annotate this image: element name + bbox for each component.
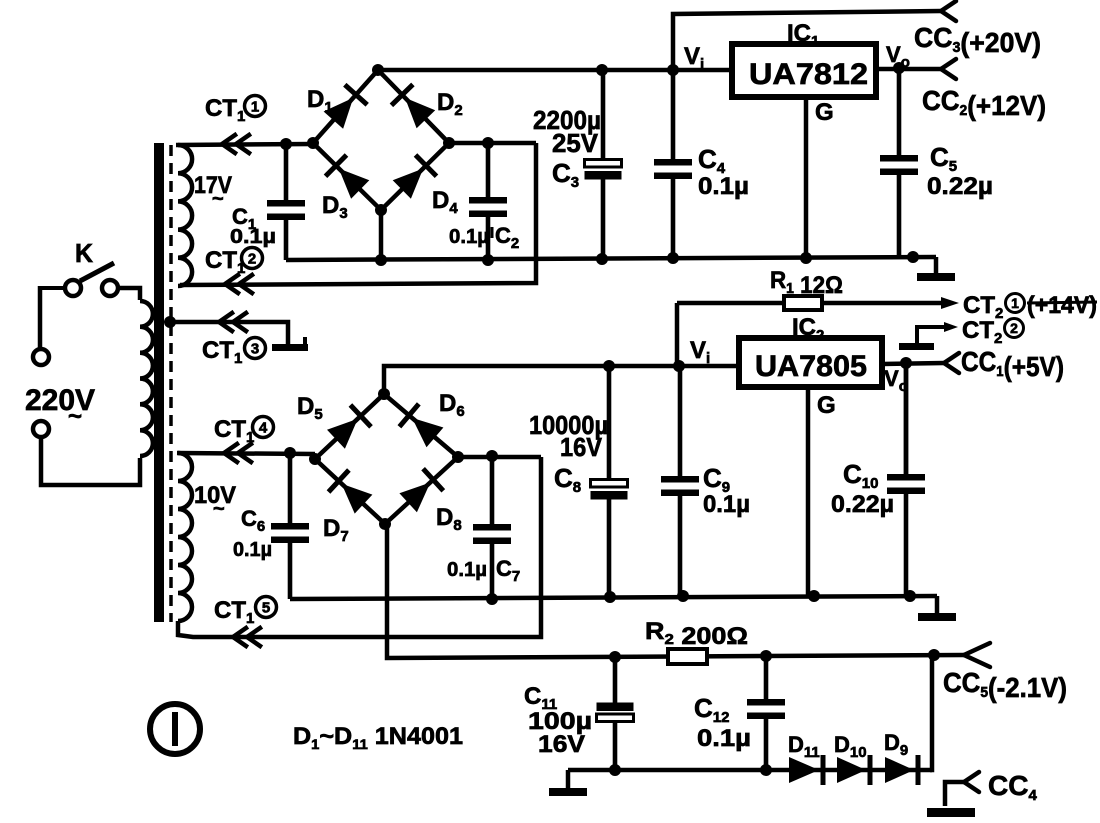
label C3 bbox=[552, 158, 579, 191]
wire bridge1 bottom vertex drop bbox=[379, 210, 384, 260]
ground symbol 4 bbox=[927, 782, 975, 817]
terminal 220V top bbox=[33, 349, 49, 365]
label D3 bbox=[322, 192, 348, 222]
IC U2 UA7805 box bbox=[739, 338, 882, 387]
svg-text:CC1(+5V): CC1(+5V) bbox=[961, 346, 1064, 382]
node CT1-3 tap junction bbox=[164, 316, 176, 328]
label C5 value bbox=[927, 173, 993, 200]
terminal CC1 bbox=[944, 353, 959, 373]
terminal CC5 bbox=[964, 643, 990, 667]
label D5 bbox=[297, 393, 323, 423]
label CT2-2 bbox=[962, 317, 1024, 347]
ground symbol 1 bbox=[917, 257, 955, 281]
label C6 value bbox=[233, 539, 272, 561]
label 10V bbox=[194, 482, 236, 520]
terminal CC2 bbox=[941, 59, 956, 79]
wire diode chain to CC5 node bbox=[930, 655, 932, 770]
transformer T1 core bbox=[154, 143, 171, 622]
svg-text:G: G bbox=[815, 99, 834, 126]
diode D7 bbox=[329, 470, 373, 514]
label CC2 bbox=[922, 85, 1046, 121]
label CT1-1 bbox=[205, 95, 266, 125]
wire mains left bbox=[38, 286, 43, 349]
terminal bar CT1-3 bbox=[272, 337, 308, 351]
svg-text:UA7805: UA7805 bbox=[755, 350, 867, 383]
pin G IC1 bbox=[815, 99, 834, 126]
node C6 top junction bbox=[284, 447, 296, 459]
wire bridge1 bottom rail bbox=[286, 254, 936, 266]
wire IC1 output bbox=[876, 62, 941, 74]
switch K bbox=[40, 263, 118, 296]
label C10 bbox=[843, 459, 878, 492]
svg-text:0.1µ: 0.1µ bbox=[447, 559, 487, 581]
label C10 value bbox=[831, 491, 894, 518]
label CC1 bbox=[961, 346, 1064, 382]
svg-text:(+14V): (+14V) bbox=[1027, 292, 1097, 319]
label C12 value bbox=[697, 725, 751, 752]
label C5 bbox=[930, 142, 957, 175]
ground rail 1 junctions bbox=[596, 251, 919, 265]
svg-text:1: 1 bbox=[1011, 295, 1019, 311]
label D4 bbox=[432, 187, 458, 217]
capacitor C2 bbox=[469, 143, 507, 260]
svg-text:0.1µ: 0.1µ bbox=[698, 173, 749, 200]
svg-text:0.22µ: 0.22µ bbox=[831, 491, 894, 518]
label C2 value bbox=[449, 223, 519, 252]
label C11 value 100u bbox=[528, 708, 592, 735]
transformer T1 secondary winding 17V bbox=[178, 145, 192, 286]
label C11 value 16V bbox=[538, 731, 585, 758]
wire mains bottom bbox=[41, 437, 140, 485]
svg-text:1: 1 bbox=[251, 98, 259, 115]
IC U1 UA7812 box bbox=[732, 44, 876, 97]
wire CT1-4 tap bbox=[177, 444, 315, 462]
label C9 value bbox=[703, 491, 750, 518]
label D11 bbox=[788, 732, 820, 761]
pin G IC2 bbox=[817, 392, 836, 419]
svg-text:0.1µ: 0.1µ bbox=[697, 725, 751, 752]
resistor R1 bbox=[677, 296, 959, 310]
diode D1 bbox=[324, 85, 368, 129]
IC U1 UA7812 text bbox=[749, 58, 868, 91]
svg-text:~: ~ bbox=[212, 188, 224, 210]
label D6 bbox=[439, 390, 465, 420]
wire switch to primary bbox=[118, 288, 140, 300]
resistor R2 bbox=[668, 649, 707, 664]
wire CT2-2 bbox=[917, 322, 958, 343]
label CT1-2 bbox=[205, 247, 263, 277]
label R1 bbox=[770, 267, 843, 299]
diode D8 bbox=[399, 469, 443, 513]
wire CC3 branch bbox=[673, 11, 941, 70]
label CT1-4 bbox=[214, 416, 274, 446]
capacitor C10 bbox=[887, 363, 925, 596]
svg-text:0.1µ: 0.1µ bbox=[233, 539, 272, 561]
svg-text:CC2(+12V): CC2(+12V) bbox=[922, 85, 1046, 121]
svg-text:2: 2 bbox=[1010, 320, 1018, 336]
label 220V bbox=[25, 384, 95, 430]
svg-text:CC5(-2.1V): CC5(-2.1V) bbox=[943, 667, 1067, 703]
label CC4 bbox=[988, 770, 1037, 804]
svg-text:2: 2 bbox=[248, 250, 256, 267]
label IC2 bbox=[792, 314, 824, 344]
label C4 bbox=[698, 144, 726, 177]
svg-text:CC3(+20V): CC3(+20V) bbox=[914, 22, 1041, 58]
svg-text:~: ~ bbox=[213, 498, 225, 520]
label C1 value bbox=[230, 226, 276, 248]
capacitor C12 bbox=[747, 656, 785, 770]
svg-text:~: ~ bbox=[68, 403, 82, 430]
svg-text:G: G bbox=[817, 392, 836, 419]
wire bridge1 right vertex to C2 bbox=[449, 141, 536, 146]
diode D4 bbox=[393, 155, 437, 199]
label C3 value 2200u bbox=[533, 105, 601, 135]
wire CT1-2 return bbox=[180, 143, 536, 293]
label C8 value 10000u bbox=[529, 410, 608, 440]
wire IC1 ground pin bbox=[804, 97, 809, 257]
capacitor C3 bbox=[585, 70, 622, 259]
label D7 bbox=[323, 515, 349, 545]
svg-text:5: 5 bbox=[262, 599, 270, 616]
label D1 bbox=[307, 86, 333, 116]
bottom rail wire bbox=[568, 764, 932, 776]
capacitor C8 bbox=[591, 366, 628, 597]
wire CT1-1 tap bbox=[176, 135, 313, 153]
pin Vi IC1 bbox=[684, 43, 704, 73]
diode D11 bbox=[789, 755, 823, 785]
IC U2 UA7805 text bbox=[755, 350, 867, 383]
svg-text:UA7812: UA7812 bbox=[749, 58, 868, 91]
capacitor C6 bbox=[271, 453, 309, 599]
label C6 bbox=[241, 506, 265, 535]
svg-text:0.1µ: 0.1µ bbox=[449, 226, 489, 248]
svg-text:D1~D11 1N4001: D1~D11 1N4001 bbox=[293, 723, 463, 752]
wire bridge2 negative output bbox=[387, 524, 964, 663]
svg-text:0.1µ: 0.1µ bbox=[230, 226, 276, 248]
label CC3 bbox=[914, 22, 1041, 58]
capacitor C9 bbox=[661, 366, 699, 596]
wire CT1-3 tap bbox=[170, 313, 288, 344]
terminal 220V bottom bbox=[33, 421, 49, 437]
figure number 1 bbox=[150, 704, 200, 754]
label CT2-1 bbox=[963, 292, 1097, 322]
label C9 bbox=[703, 463, 730, 496]
wire bridge1 positive output bbox=[378, 64, 732, 76]
ground rail 2 bbox=[290, 590, 937, 605]
capacitor C4 bbox=[654, 70, 692, 257]
diode D2 bbox=[391, 84, 435, 128]
label D9 bbox=[884, 730, 908, 759]
svg-text:3: 3 bbox=[251, 340, 259, 357]
label IC1 bbox=[787, 20, 819, 50]
terminal bar CT2-2 bbox=[899, 343, 934, 350]
label C1 bbox=[232, 204, 256, 233]
terminal CC4 bbox=[964, 772, 979, 792]
wire Vo2 branch bbox=[904, 363, 909, 475]
ground symbol 2 bbox=[918, 596, 956, 621]
node C1 top junction bbox=[280, 138, 292, 150]
label C4 value bbox=[698, 173, 749, 200]
wire IC2 output bbox=[882, 357, 944, 369]
label C11 bbox=[524, 683, 557, 713]
svg-text:4: 4 bbox=[259, 419, 268, 436]
wire bridge2 right vertex to C7 bbox=[458, 455, 541, 460]
label CT1-5 bbox=[214, 597, 277, 628]
label 17V bbox=[194, 172, 232, 210]
capacitor C11 bbox=[597, 657, 634, 770]
transformer T1 secondary winding 10V bbox=[178, 453, 192, 621]
switch K label bbox=[75, 238, 93, 268]
diode D10 bbox=[837, 755, 870, 785]
node C7 top junction bbox=[486, 450, 498, 462]
wire bridge1 frame bbox=[307, 64, 455, 216]
label C7 value bbox=[447, 556, 520, 585]
capacitor C5 bbox=[880, 68, 918, 257]
label diodes type bbox=[293, 723, 463, 752]
wire CT1-5 return bbox=[178, 457, 541, 646]
diode D3 bbox=[326, 155, 370, 199]
svg-text:220V: 220V bbox=[25, 384, 95, 417]
wire bridge2 positive output bbox=[384, 360, 739, 394]
label C8 value 16V bbox=[560, 432, 603, 462]
capacitor C7 bbox=[473, 456, 511, 599]
svg-text:0.22µ: 0.22µ bbox=[927, 173, 993, 200]
label CC5 bbox=[943, 667, 1067, 703]
label D2 bbox=[437, 89, 463, 119]
label C3 value 25V bbox=[552, 128, 599, 158]
diode D5 bbox=[327, 405, 371, 449]
node C2 top junction bbox=[482, 137, 494, 149]
label D8 bbox=[436, 504, 462, 534]
transformer T1 primary winding bbox=[140, 301, 153, 456]
pin Vo IC1 bbox=[886, 42, 910, 71]
wire bridge2 frame bbox=[309, 388, 464, 530]
capacitor C1 bbox=[267, 144, 305, 260]
label C8 bbox=[554, 463, 581, 496]
label C12 bbox=[694, 693, 729, 726]
diode D9 bbox=[885, 755, 918, 785]
wire R1 to Vi2 bbox=[675, 303, 680, 366]
label D10 bbox=[834, 732, 867, 761]
wire IC2 ground pin bbox=[806, 387, 811, 596]
svg-text:16V: 16V bbox=[560, 432, 603, 462]
svg-text:0.1µ: 0.1µ bbox=[703, 491, 750, 518]
ground symbol 3 bbox=[549, 770, 587, 796]
svg-text:16V: 16V bbox=[538, 731, 585, 758]
label R2 bbox=[645, 618, 748, 650]
pin Vi IC2 bbox=[690, 337, 710, 367]
svg-text:K: K bbox=[75, 238, 93, 268]
label CT1-3 bbox=[202, 337, 266, 367]
diode D6 bbox=[399, 404, 443, 447]
terminal CC3 bbox=[941, 1, 956, 21]
svg-text:25V: 25V bbox=[552, 128, 599, 158]
pin Vo IC2 bbox=[884, 366, 908, 395]
